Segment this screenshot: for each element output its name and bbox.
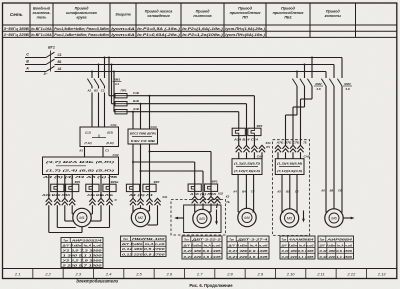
3-phase mark [44,72,48,76]
fuse FU1-B [115,102,127,106]
thermal relay FR3 element 2 [204,184,217,191]
fused feeder line C1B [127,95,254,97]
connector pins X4.2 [243,145,249,152]
connector pins X3.2 [200,197,206,204]
connector pins X2.2 [137,198,143,205]
connector pin KZ1 [154,195,167,205]
contactor KM1 taps [91,57,106,79]
connector pin X5.0 [275,145,281,158]
connector pins X2.3 [146,198,152,205]
net B1B label [133,99,139,103]
thermal relay FR2 element 1 [126,184,139,191]
connector pins X1.4 [69,198,75,205]
tap to M3 phase 3 [140,170,204,197]
connector pin X3.4 [214,197,220,204]
connector pins X3.3 [208,197,214,204]
wires connectors to motor M2 [133,205,158,225]
net A1B label [132,107,139,111]
spec table motor M1 [60,238,103,268]
fused feeder line B1B [127,103,247,105]
fuse FU1-C [115,94,127,98]
switch SA4 box [232,154,263,174]
M2 terminal labels [127,193,154,197]
spec table motor M2 [120,236,166,257]
connector pins X1.2 [54,198,60,205]
taps to switch SA3 [132,95,151,129]
tap to M3 phase 1 [149,151,212,197]
node A2 B2 C2 labels [87,89,105,93]
M5 terminal labels low [276,189,299,193]
top specification table grid [3,3,397,37]
zone reference strip [3,269,397,279]
M3 arrow down [215,210,218,226]
caption electric motors [76,279,119,284]
label KM3 zone ref [343,82,352,91]
fuse FU1-A [115,110,127,114]
wires FR4 to connectors [239,136,255,146]
table data row 2 [4,33,265,37]
M5 terminal labels [275,141,300,145]
net C1B label [133,91,139,95]
bus B1 [55,60,335,78]
fuse FU1 label [120,89,126,93]
thermal relay FR1b element 2 [103,184,116,191]
contactor KM2 contacts [292,79,312,87]
motor M1 [73,208,91,226]
wires SA1 to SA2 [78,147,109,158]
M5 arrow down [302,211,305,223]
connector pins X1.1 [46,198,52,205]
connector pins X1.7 [106,198,112,205]
thermal relay FR1 label [75,180,81,184]
wires connectors into SA4 [239,152,262,159]
contactor KM3 contacts [321,79,342,87]
connector pins X5.2 [290,145,296,158]
feeder drop C1B [253,96,255,129]
thermal relay FR1 element 2 [66,184,79,191]
wires SA3 down [133,144,150,198]
connector pins X1.3 [62,198,68,205]
thermal relay FR2 element 2 [143,184,156,191]
unit M3 dashed enclosure [171,200,230,236]
label KZ2 [218,192,223,196]
M1 terminal labels right [85,193,113,197]
spec table motor M6 [318,236,354,259]
table data row 1 [4,27,265,31]
unit M5 dashed enclosure [273,140,310,236]
wires KM3 to motor M6 [326,87,342,213]
wires SA5 to motor M5 [282,175,297,213]
motor M3 [193,209,211,227]
M6 travel arrow right [343,217,354,220]
label KM2 zone ref [314,82,323,91]
table header labels [10,7,342,20]
M1 terminal labels left [40,193,70,197]
thermal relay FR1b element 1 [86,184,99,191]
feeder drop A1B [238,112,240,129]
thermal relay FR4 element 1 [232,128,245,135]
motor M2 [131,208,149,226]
connector pins X2.1 [130,198,136,205]
thermal relay FR1 element 1 [51,184,64,191]
contactor KM1 contacts [87,79,104,89]
wires into M3 [195,203,218,212]
connector pins X4.1 [236,145,242,152]
M6 terminal labels [320,188,342,192]
thermal relay FR4 element 2 [248,128,261,135]
connector pins X3.1 [192,197,198,204]
label KM1 zone ref [113,77,122,86]
motor M4 [238,208,256,226]
bus A1 [55,67,327,78]
figure caption [189,283,233,288]
fused feeder line A1B [127,111,239,113]
bus C1 [55,53,343,78]
connector pins X4.3 [251,145,257,152]
M3 terminal labels [188,192,216,196]
thermal relay FR1b label [111,180,119,184]
switch SA2 box [43,153,119,175]
switch SA5 box [275,154,310,174]
unit M3 solid box [184,205,221,233]
main switch ВГ1 [46,46,55,72]
connector pins X1.5 [89,198,95,205]
spec table motor M5 [280,236,315,259]
motor M6 [325,209,343,227]
wires SA2 to motor connectors [49,175,110,199]
label KZ down [226,194,230,198]
switch SA1 box [80,123,119,147]
feeder drop B1B [246,104,248,146]
phase C supply stub [25,53,46,58]
M4 node labels [232,137,258,141]
M4 terminal labels [232,189,255,193]
connector pins X1.6 [98,198,104,205]
M3 travel arrow left [174,217,183,220]
switch SA3 box [128,125,158,144]
contactor KM2 taps [296,57,313,79]
thermal relay FR3 label [212,180,218,184]
wires SA4 to motor M4 [238,175,254,213]
thermal relay FR2 label [154,180,160,184]
fuse feeder taps [108,57,115,112]
connector pins X5.3 [297,145,303,158]
motor M5 [280,209,298,227]
spec table motor M4 [227,236,269,259]
SA2 output terminal labels [40,175,118,179]
KM2 output staircase wires [286,87,313,146]
phase B supply stub [25,60,46,65]
wires connectors to motor M1 [49,205,110,232]
thermal relay FR3 element 1 [188,184,201,191]
thermal relay FR4 label [257,124,263,128]
connector pins X5.1 [282,145,288,158]
spec table motor M3 [182,236,222,259]
mark 3 phase M1 [114,198,117,202]
phase A supply stub [25,67,46,72]
wires KM1 to switch SA1 [92,93,105,128]
connector pin KZ4 [259,141,271,152]
tap to M3 phase 2 [132,161,195,197]
